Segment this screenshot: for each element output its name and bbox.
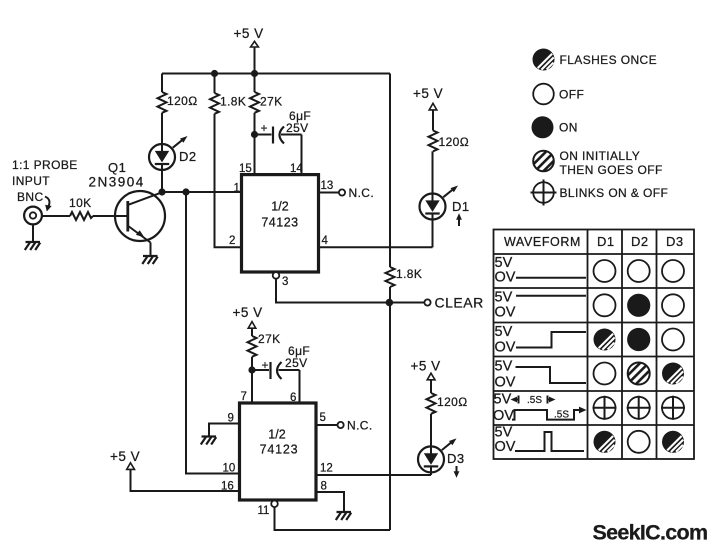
table row 1: steady low	[495, 255, 685, 286]
terminal CLEAR	[424, 299, 430, 305]
svg-text:5V: 5V	[495, 290, 513, 306]
svg-text:+5 V: +5 V	[234, 26, 264, 41]
svg-text:OFF: OFF	[559, 88, 584, 102]
svg-text:ON INITIALLY: ON INITIALLY	[560, 149, 641, 163]
junction dot collector node	[158, 188, 165, 195]
pin 11 terminal circle	[271, 501, 278, 508]
svg-text:8: 8	[321, 481, 327, 493]
resistor R 10K	[69, 196, 93, 220]
svg-text:5V: 5V	[495, 359, 513, 375]
svg-text:1/2: 1/2	[271, 200, 288, 214]
wire 1.8K to CLEAR node and down to pin11 bus	[389, 287, 391, 530]
LED D1	[420, 186, 470, 227]
wire trigger vertical to pin 10	[186, 192, 240, 474]
svg-text:12: 12	[320, 463, 333, 475]
svg-text:120Ω: 120Ω	[167, 94, 198, 108]
legend: blinks on and off	[531, 180, 669, 206]
svg-text:OV: OV	[495, 270, 516, 286]
resistor R 27K (timing, U1b)	[248, 332, 281, 357]
svg-text:27K: 27K	[258, 332, 281, 346]
svg-text:27K: 27K	[260, 95, 283, 109]
table header	[504, 234, 684, 249]
wire BNC to ground	[32, 224, 34, 242]
svg-text:11: 11	[258, 505, 270, 517]
wire 10K to base	[93, 215, 128, 217]
table row 5: square wave .5S	[493, 392, 685, 425]
wire pin 11 to CLEAR line	[275, 507, 391, 530]
svg-text:120Ω: 120Ω	[437, 395, 468, 409]
wire 120 ohm to D3	[430, 414, 432, 454]
svg-text:74123: 74123	[261, 216, 298, 230]
junction dot supply/27K	[251, 70, 258, 77]
junction dot cap C2	[248, 366, 255, 373]
LED D3	[418, 438, 465, 477]
wire top supply bus	[162, 73, 390, 75]
svg-text:1: 1	[234, 183, 240, 195]
table row 4: falling edge	[495, 359, 685, 391]
svg-text:ON: ON	[559, 121, 578, 135]
wire +5V to 120 ohm	[430, 380, 432, 393]
wire 120 ohm top lead	[161, 74, 163, 93]
power +5V supply (top)	[234, 26, 264, 47]
terminal N.C. (pin 13)	[339, 189, 345, 195]
svg-text:+5 V: +5 V	[110, 449, 140, 464]
svg-text:CLEAR: CLEAR	[435, 295, 484, 311]
wire cap to pin 14	[301, 135, 303, 175]
svg-text:25V: 25V	[286, 121, 309, 135]
resistor R 27K (timing, U1a)	[250, 92, 283, 113]
wire pin 8 to ground	[316, 492, 344, 513]
svg-text:OV: OV	[493, 408, 514, 424]
svg-text:1:1 PROBE: 1:1 PROBE	[12, 158, 78, 172]
svg-text:+: +	[261, 121, 268, 135]
svg-text:7: 7	[241, 391, 247, 403]
junction dot CLEAR node	[386, 299, 394, 307]
connector BNC	[24, 207, 42, 225]
svg-text:BLINKS ON & OFF: BLINKS ON & OFF	[560, 186, 669, 200]
legend: flashes once	[533, 49, 658, 71]
resistor R 120 ohm (D2)	[158, 92, 198, 113]
wire emitter to ground	[150, 243, 152, 257]
resistor R 120 ohm (D3)	[427, 393, 468, 414]
legend: on initially then goes off	[533, 149, 663, 177]
wire 120 ohm to D2	[161, 113, 163, 152]
ground (pin 9)	[201, 437, 216, 445]
wire +5V to 120 ohm	[432, 110, 434, 131]
ground (emitter)	[142, 256, 157, 264]
svg-text:1.8K: 1.8K	[396, 267, 422, 281]
ground (BNC)	[25, 242, 40, 250]
resistor R 1.8K (pin 2)	[210, 93, 246, 114]
capacitor C1 6uF 25V	[255, 109, 312, 144]
wire pin 13 to N.C.	[319, 192, 339, 194]
pin 3 terminal circle	[273, 272, 280, 279]
svg-text:4: 4	[322, 235, 329, 247]
svg-text:5V: 5V	[495, 324, 513, 340]
svg-text:2: 2	[229, 235, 235, 247]
svg-text:OV: OV	[495, 439, 516, 455]
wire 1.8K top lead	[214, 74, 216, 94]
table row 3: rising edge	[495, 324, 685, 356]
svg-text:.5S: .5S	[527, 395, 542, 406]
resistor R 1.8K (clear pull-up)	[386, 267, 423, 287]
svg-text:D1: D1	[597, 234, 615, 249]
svg-text:N.C.: N.C.	[349, 186, 375, 200]
svg-text:OV: OV	[495, 340, 516, 356]
svg-text:+5 V: +5 V	[233, 305, 263, 320]
svg-text:1.8K: 1.8K	[220, 95, 246, 109]
ground (pin 8)	[336, 512, 351, 520]
wire pin 12 to D3	[316, 474, 431, 476]
svg-text:BNC: BNC	[17, 190, 44, 204]
LED D2	[149, 136, 197, 170]
wire pin 3 to CLEAR node	[276, 279, 389, 303]
wire D3 cathode to pin 12 line	[430, 466, 432, 475]
svg-text:+5 V: +5 V	[413, 86, 443, 101]
svg-text:D3: D3	[666, 234, 684, 249]
svg-text:N.C.: N.C.	[347, 419, 373, 433]
svg-text:D2: D2	[631, 234, 649, 249]
table row 2: steady high	[495, 290, 685, 321]
wire 27K to pin 15	[254, 113, 256, 175]
svg-text:1/2: 1/2	[268, 428, 285, 442]
svg-text:9: 9	[228, 413, 234, 425]
svg-text:SeekIC.com: SeekIC.com	[593, 521, 708, 545]
legend: on	[532, 116, 578, 138]
wire +5V to 27K	[251, 328, 253, 336]
svg-text:.5S: .5S	[554, 410, 569, 421]
power +5V supply (D1)	[413, 86, 443, 110]
wire D1 cathode to pin 4 line	[432, 214, 434, 248]
resistor R 120 ohm (D1)	[429, 131, 470, 152]
wire pin 1	[162, 191, 242, 193]
label probe input	[12, 158, 78, 212]
power +5V supply (pin 16)	[110, 449, 140, 469]
legend: off	[533, 84, 584, 105]
svg-text:INPUT: INPUT	[12, 174, 50, 188]
wire 27K to pin 7	[251, 357, 253, 403]
junction dot supply/1.8K	[211, 70, 218, 77]
junction dot cap C1	[251, 131, 258, 138]
junction dot trigger line	[182, 188, 189, 195]
wire 1.8K down to pin 2	[215, 114, 242, 248]
transistor Q1 2N3904	[89, 160, 166, 243]
svg-text:D1: D1	[452, 199, 470, 214]
one-shot U1a 1/2 74123	[242, 175, 319, 272]
one-shot U1b 1/2 74123	[240, 403, 317, 500]
svg-text:+: +	[262, 358, 269, 372]
svg-text:74123: 74123	[260, 443, 299, 457]
table row 6: single pulse	[495, 425, 685, 456]
wire right vertical drop to 1.8K	[389, 74, 391, 268]
wire BNC to 10K	[42, 215, 70, 217]
svg-text:D3: D3	[447, 451, 465, 466]
wire D2 cathode to collector junction	[161, 164, 163, 192]
power +5V supply (D3)	[411, 359, 441, 380]
svg-text:OV: OV	[495, 375, 516, 391]
svg-text:10K: 10K	[69, 196, 92, 210]
table: waveform/LED state chart	[494, 230, 695, 460]
wire 27K top lead	[254, 74, 256, 93]
svg-text:5V: 5V	[494, 392, 512, 408]
wire pin 9 to ground	[209, 424, 240, 437]
svg-text:+5 V: +5 V	[411, 359, 441, 374]
terminal N.C. (pin 5)	[338, 422, 344, 428]
svg-text:2N3904: 2N3904	[89, 175, 145, 190]
svg-text:5: 5	[320, 412, 326, 424]
svg-text:120Ω: 120Ω	[439, 135, 470, 149]
wire pin 16 to +5V	[131, 469, 240, 491]
svg-text:FLASHES ONCE: FLASHES ONCE	[560, 53, 658, 67]
wire CLEAR stub	[389, 302, 424, 304]
wire +5V top lead	[254, 47, 256, 74]
wire cap to pin 6	[299, 370, 301, 403]
svg-text:10: 10	[223, 463, 236, 475]
svg-text:13: 13	[321, 180, 334, 192]
svg-text:THEN GOES OFF: THEN GOES OFF	[560, 163, 663, 177]
svg-text:D2: D2	[179, 149, 197, 164]
svg-text:WAVEFORM: WAVEFORM	[504, 235, 581, 249]
wire pin 5 to N.C.	[316, 424, 337, 426]
wire 120 ohm to D1	[432, 151, 434, 201]
svg-text:OV: OV	[495, 305, 516, 321]
svg-text:Q1: Q1	[108, 160, 126, 175]
svg-text:25V: 25V	[285, 356, 308, 370]
svg-text:16: 16	[221, 481, 234, 493]
wire pin 4 to D1	[319, 246, 433, 248]
capacitor C2 6uF 25V	[252, 344, 310, 379]
power +5V supply (U1b timing)	[233, 305, 263, 328]
svg-text:3: 3	[282, 276, 288, 288]
